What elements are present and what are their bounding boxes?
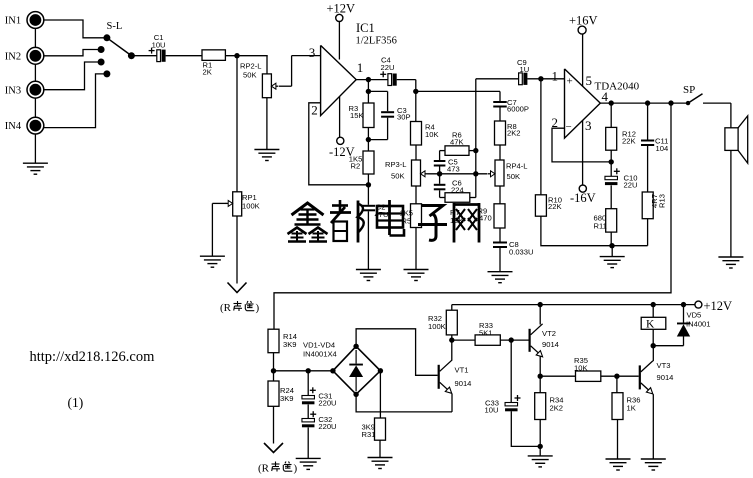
svg-text:50K: 50K xyxy=(243,70,257,79)
svg-text:10K: 10K xyxy=(574,363,588,372)
svg-text:IN4001X4: IN4001X4 xyxy=(303,350,337,359)
svg-text:9014: 9014 xyxy=(657,373,674,382)
svg-text:22U: 22U xyxy=(624,180,638,189)
svg-text:30P: 30P xyxy=(397,113,411,122)
svg-text:RP1: RP1 xyxy=(242,193,257,202)
svg-text:IN1: IN1 xyxy=(5,16,21,27)
svg-text:100K: 100K xyxy=(242,202,260,211)
svg-text:(1): (1) xyxy=(68,395,84,410)
svg-text:2: 2 xyxy=(311,103,318,118)
svg-text:+12V: +12V xyxy=(704,299,733,313)
svg-text:3K9: 3K9 xyxy=(280,394,294,403)
svg-text:1U: 1U xyxy=(520,65,530,74)
svg-text:22K: 22K xyxy=(622,136,636,145)
svg-text:K: K xyxy=(646,318,655,330)
svg-text:15K: 15K xyxy=(350,111,364,120)
svg-text:4: 4 xyxy=(602,89,609,104)
svg-text:50K: 50K xyxy=(391,171,405,180)
svg-text:47K: 47K xyxy=(450,138,464,147)
svg-text:+16V: +16V xyxy=(569,13,598,27)
svg-text:2K2: 2K2 xyxy=(550,404,564,413)
svg-text:R2: R2 xyxy=(351,161,361,170)
svg-text:0.033U: 0.033U xyxy=(509,247,534,256)
svg-text:22K: 22K xyxy=(548,202,562,211)
svg-text:1K: 1K xyxy=(627,404,636,413)
svg-text:22U: 22U xyxy=(381,63,395,72)
svg-text:IN4001: IN4001 xyxy=(686,320,711,329)
svg-text:+12V: +12V xyxy=(327,1,356,15)
svg-text:10K: 10K xyxy=(425,130,439,139)
svg-text:-16V: -16V xyxy=(570,191,596,205)
svg-text:473: 473 xyxy=(447,165,460,174)
svg-text:9014: 9014 xyxy=(542,340,559,349)
svg-text:−: − xyxy=(566,121,572,133)
svg-text:220U: 220U xyxy=(318,398,336,407)
svg-text:100K: 100K xyxy=(428,322,446,331)
svg-text:2K2: 2K2 xyxy=(507,128,521,137)
svg-text:): ) xyxy=(294,463,298,475)
svg-text:5: 5 xyxy=(586,73,593,88)
svg-text:1: 1 xyxy=(552,68,559,83)
svg-text:RP3-L: RP3-L xyxy=(385,160,407,169)
svg-text:IN3: IN3 xyxy=(5,85,21,96)
svg-text:R13: R13 xyxy=(657,194,666,208)
svg-text:R11: R11 xyxy=(594,221,607,230)
svg-text:VT2: VT2 xyxy=(542,329,556,338)
svg-text:RP2-L: RP2-L xyxy=(240,61,262,70)
svg-text:S-L: S-L xyxy=(107,21,123,32)
svg-text:RP4-L: RP4-L xyxy=(506,161,528,170)
svg-text:(R: (R xyxy=(258,463,270,475)
svg-text:470: 470 xyxy=(479,213,492,222)
svg-text:104: 104 xyxy=(656,144,669,153)
svg-text:VD5: VD5 xyxy=(687,310,702,319)
svg-text:5K1: 5K1 xyxy=(479,328,493,337)
svg-text:3: 3 xyxy=(309,45,316,60)
svg-text:2K: 2K xyxy=(203,68,212,77)
svg-text:http://xd218.126.com: http://xd218.126.com xyxy=(30,349,156,365)
svg-text:10U: 10U xyxy=(485,405,499,414)
svg-text:IN2: IN2 xyxy=(5,51,21,62)
svg-text:220U: 220U xyxy=(318,422,336,431)
svg-text:3K9: 3K9 xyxy=(283,340,297,349)
svg-text:R31: R31 xyxy=(362,430,376,439)
svg-text:SP: SP xyxy=(683,84,695,96)
svg-text:(R: (R xyxy=(220,302,232,314)
svg-text:6000P: 6000P xyxy=(507,105,529,114)
svg-text:IC1: IC1 xyxy=(356,21,375,35)
svg-text:3: 3 xyxy=(585,118,592,133)
svg-text:): ) xyxy=(256,302,260,314)
svg-text:VD1-VD4: VD1-VD4 xyxy=(303,340,335,349)
svg-text:IN4: IN4 xyxy=(5,121,22,132)
svg-text:1: 1 xyxy=(357,60,364,75)
svg-text:9014: 9014 xyxy=(455,379,472,388)
svg-text:10U: 10U xyxy=(152,40,166,49)
svg-text:1/2LF356: 1/2LF356 xyxy=(356,36,397,47)
svg-text:VT1: VT1 xyxy=(455,365,469,374)
svg-text:VT3: VT3 xyxy=(657,361,671,370)
svg-text:50K: 50K xyxy=(507,172,521,181)
svg-text:+: + xyxy=(567,75,573,87)
